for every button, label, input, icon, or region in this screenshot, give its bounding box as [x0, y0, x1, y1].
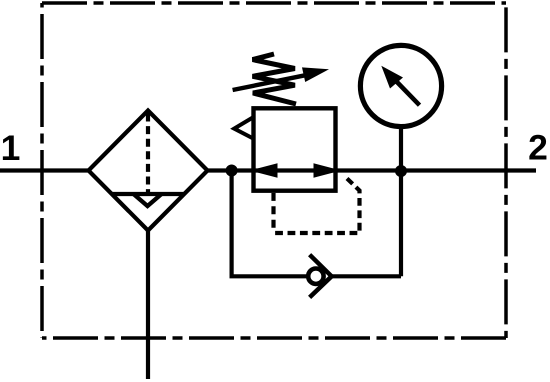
regulator flow arrow right: [314, 163, 342, 177]
gauge needle shaft: [397, 82, 420, 106]
gauge stem: [399, 126, 403, 171]
gauge needle head: [381, 66, 403, 89]
node: junction dot left (regulator inlet): [226, 165, 238, 177]
pilot feedback line riser to regulator (dashed): [271, 193, 275, 233]
pilot feedback line (dashed): [274, 179, 360, 234]
node: junction dot right (gauge tap): [395, 165, 407, 177]
drain line: [146, 230, 150, 379]
wire: main flow line left (port 1 to filter): [0, 168, 90, 172]
water separator line: [112, 192, 184, 196]
filter F1 body (diamond): [89, 111, 208, 231]
regulator flow arrow left: [250, 163, 278, 177]
pressure gauge G1: [360, 45, 441, 126]
adjustment arrow head: [302, 67, 329, 82]
wire: bypass left riser: [230, 171, 234, 277]
check valve seat: [310, 255, 332, 298]
filter element (dashed): [146, 114, 150, 195]
svg-text:1: 1: [1, 128, 21, 168]
wire: bypass bottom right segment: [332, 274, 401, 278]
enclosure dash-dot border right: [504, 3, 508, 338]
wire: main flow line filter to regulator to port 2: [206, 168, 536, 172]
enclosure dash-dot border left: [40, 3, 44, 338]
wire: bypass right riser: [399, 171, 403, 277]
check valve ball: [308, 269, 323, 284]
relief vent triangle: [234, 117, 253, 138]
adjustment arrow shaft: [233, 75, 305, 90]
regulator U1 body: [254, 108, 336, 190]
wire: bypass bottom left segment: [230, 274, 308, 278]
enclosure dash-dot border bottom: [42, 336, 506, 340]
enclosure dash-dot border top: [42, 1, 506, 5]
svg-text:2: 2: [528, 128, 548, 168]
water separator triangle: [134, 194, 162, 206]
adjustment spring: [253, 54, 296, 104]
